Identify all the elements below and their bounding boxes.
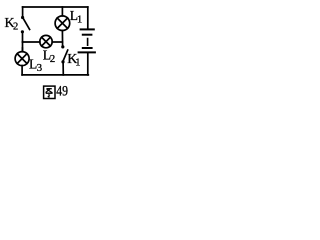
wire left lower (L3 to bottom corner): [21, 66, 23, 75]
switch K2 bottom terminal dot: [21, 30, 24, 33]
wire middle branch left (junction to L2): [23, 41, 40, 43]
wire L1 bottom to K1 top terminal: [61, 31, 63, 48]
label K2: [5, 16, 19, 33]
battery plate long top: [81, 28, 94, 30]
switch K1 bottom terminal dot: [61, 60, 64, 63]
wire L1 stub from top wire: [61, 7, 63, 16]
battery plate short bottom: [83, 47, 92, 49]
switch K1 blade: [63, 50, 67, 60]
wire K1 bottom to bottom wire: [62, 63, 64, 75]
svg-text:2: 2: [13, 22, 18, 33]
wire right upper (corner to battery): [87, 7, 89, 28]
switch K1 top terminal dot: [61, 45, 64, 48]
lamp L1: [55, 16, 70, 31]
wire top: [23, 6, 88, 8]
node middle-branch left junction: [22, 41, 24, 43]
svg-text:49: 49: [56, 84, 68, 100]
wire left middle (K2 to L3): [22, 33, 24, 52]
battery plate long bottom: [79, 51, 95, 53]
battery plate short top: [83, 34, 92, 36]
label L3: [29, 57, 43, 75]
svg-text:1: 1: [77, 15, 82, 26]
lamp L2: [40, 35, 52, 47]
wire L3 top stub: [21, 48, 23, 52]
label L1: [70, 8, 82, 26]
wire right lower (battery to bottom corner): [87, 53, 89, 75]
label L2: [43, 48, 56, 66]
switch K2 blade: [23, 19, 29, 30]
svg-text:1: 1: [75, 58, 80, 69]
svg-text:3: 3: [37, 62, 43, 74]
caption character tu (figure) drawn as glyph: [44, 86, 55, 98]
switch K2 top terminal dot: [21, 16, 24, 19]
label K1: [67, 52, 80, 69]
battery dashed middle link: [87, 39, 89, 46]
wire left upper (corner to K2 top terminal): [22, 7, 24, 18]
lamp L3: [15, 52, 29, 66]
svg-text:2: 2: [50, 53, 56, 65]
wire bottom: [22, 74, 88, 76]
wire middle branch right (L2 to K1 stub): [52, 41, 62, 43]
